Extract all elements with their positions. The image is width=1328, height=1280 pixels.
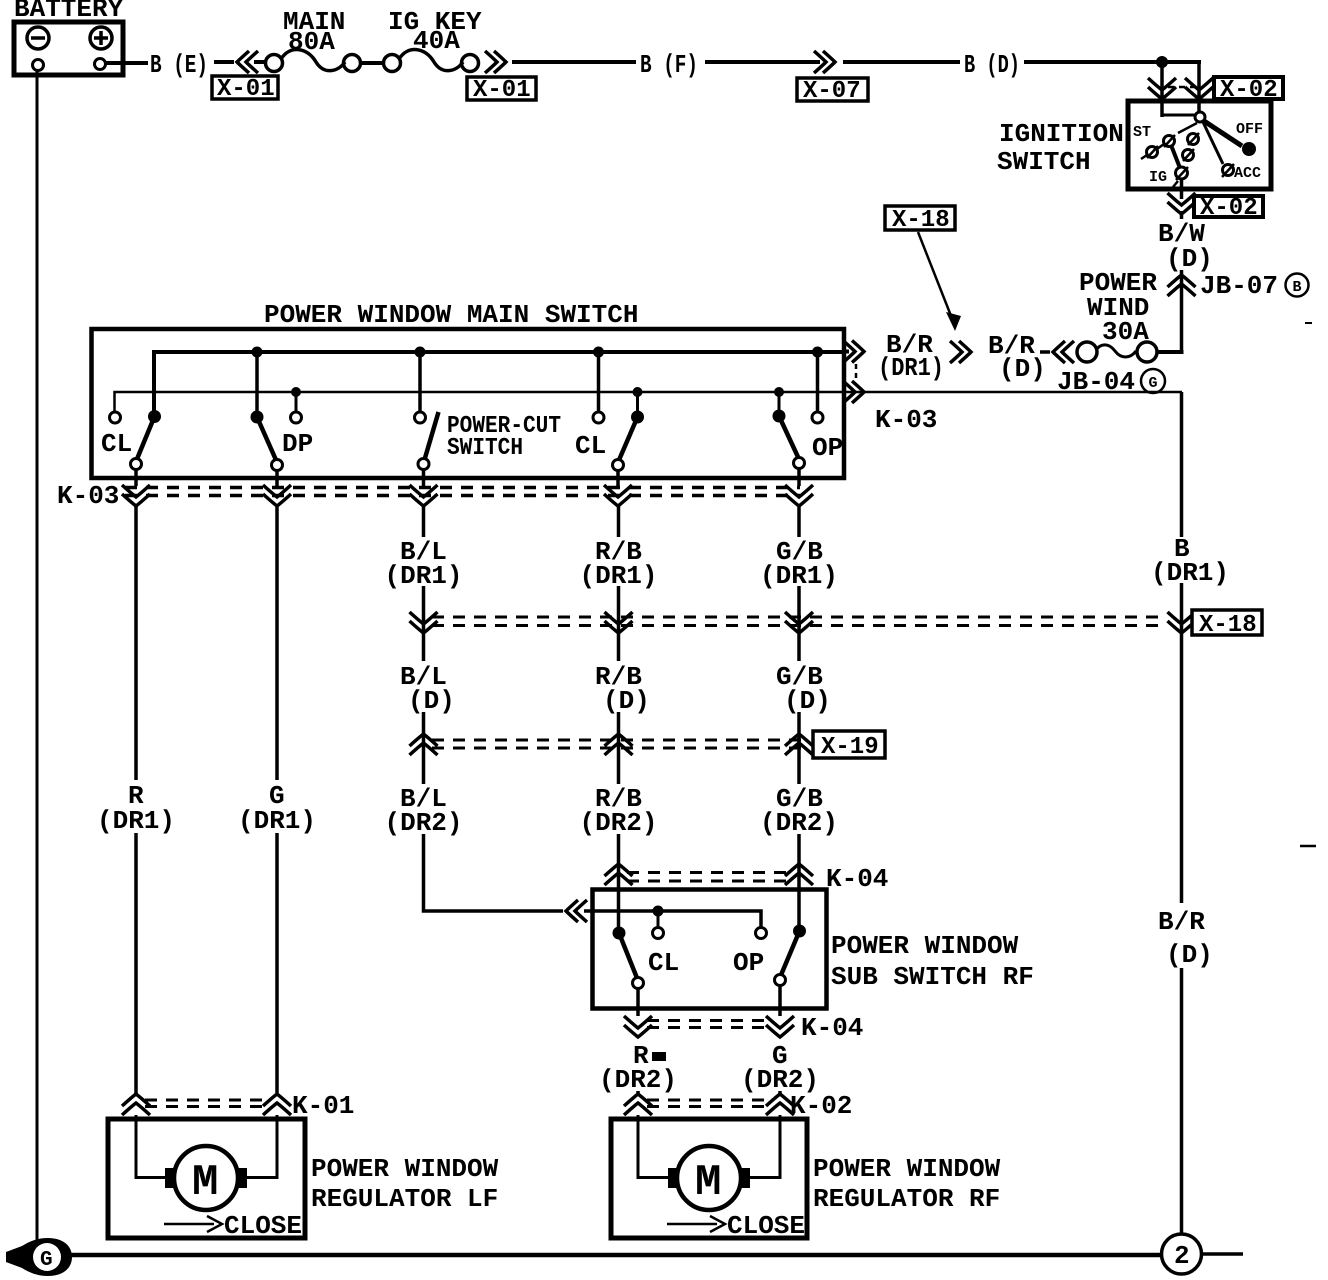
svg-text:OP: OP (812, 433, 843, 463)
wire G (DR1) (275, 505, 279, 780)
label JB-04 G (1057, 367, 1165, 397)
svg-text:CLOSE: CLOSE (727, 1211, 805, 1241)
svg-text:X-19: X-19 (821, 734, 879, 761)
wire B(F) (512, 60, 636, 64)
wire (134, 833, 138, 1096)
wire (778, 1091, 782, 1096)
wire (422, 712, 426, 784)
svg-text:CL: CL (575, 431, 606, 461)
stray mark (1305, 322, 1312, 324)
wire dashed between X-02 (1168, 86, 1194, 89)
label X-18 (1192, 610, 1262, 639)
connector X-07 chevron (814, 51, 835, 73)
close arrow LF (164, 1211, 302, 1241)
wire (422, 586, 426, 661)
wire corner to fuse (1156, 350, 1182, 352)
svg-text:(DR2): (DR2) (599, 1065, 677, 1095)
wire (617, 712, 621, 784)
wire (797, 712, 801, 784)
wire B(D) (843, 60, 960, 64)
wire ground bus (70, 1253, 1162, 1258)
connector X-02 chevrons top (1148, 78, 1176, 99)
wire OP output (778, 986, 782, 1017)
wire battery to B(E) (106, 61, 148, 65)
label X-18 with arrow (885, 206, 961, 331)
motor M regulator LF (165, 1146, 247, 1210)
switch CL left (101, 410, 161, 470)
node circled 2 (1162, 1234, 1202, 1274)
svg-text:SWITCH: SWITCH (447, 435, 523, 462)
label POWER WIND 30A (1079, 268, 1157, 347)
svg-text:DP: DP (282, 429, 313, 459)
wires switch outputs to K-03 (134, 469, 138, 486)
svg-text:(D): (D) (408, 686, 455, 716)
svg-text:(D): (D) (603, 686, 650, 716)
svg-text:2: 2 (1174, 1241, 1190, 1271)
connector JB-04 chevron (1053, 341, 1074, 363)
svg-text:SUB SWITCH RF: SUB SWITCH RF (831, 962, 1034, 992)
svg-text:X-07: X-07 (803, 78, 861, 105)
fuse POWER WIND 30A (1077, 342, 1157, 362)
wire into RF motor left (638, 1115, 669, 1178)
label X-19 (813, 731, 885, 761)
svg-text:REGULATOR RF: REGULATOR RF (813, 1184, 1000, 1214)
svg-text:(D): (D) (999, 354, 1046, 384)
wire bus exit B/R DR1 (844, 350, 849, 354)
wire (617, 834, 621, 930)
wire (797, 586, 801, 661)
connector X-02 chevron bottom (1168, 193, 1196, 214)
wire stub (657, 911, 660, 927)
switch CL right (575, 352, 644, 471)
label X-02 bottom (1194, 195, 1263, 222)
svg-text:CL: CL (648, 948, 679, 978)
svg-text:B (F): B (F) (640, 50, 698, 80)
svg-text:(DR1): (DR1) (97, 806, 175, 836)
connector K-04 top row (627, 864, 888, 894)
switch POWER-CUT (415, 352, 562, 470)
wire R/B (617, 505, 621, 537)
svg-text:CLOSE: CLOSE (224, 1211, 302, 1241)
connector K-03 chevron (843, 381, 864, 403)
svg-text:X-18: X-18 (1199, 612, 1257, 639)
connector K-03 row (57, 481, 800, 511)
svg-text:X-18: X-18 (892, 207, 950, 234)
svg-text:POWER WINDOW MAIN SWITCH: POWER WINDOW MAIN SWITCH (264, 300, 638, 330)
switch DP (251, 352, 314, 471)
connector K-04 bottom row (647, 1013, 863, 1043)
power window regulator RF box (611, 1119, 1001, 1238)
label X-01 right (467, 77, 536, 104)
wire to ignition (1024, 60, 1201, 64)
svg-text:M: M (695, 1158, 721, 1208)
svg-text:(D): (D) (1166, 940, 1213, 970)
svg-text:(DR1): (DR1) (878, 353, 944, 383)
connector chevron (950, 341, 971, 363)
svg-text:B/R: B/R (1158, 907, 1205, 937)
wire B/L (422, 505, 426, 537)
connector chevron at main switch (843, 341, 864, 363)
svg-text:B (D): B (D) (964, 50, 1020, 80)
wire R (DR1) (134, 505, 138, 780)
svg-text:POWER WINDOW: POWER WINDOW (311, 1154, 499, 1184)
battery (14, 0, 124, 75)
ground body symbol G (6, 1238, 72, 1276)
wire (1180, 270, 1184, 352)
connector dashed link (855, 364, 858, 381)
svg-text:(DR1): (DR1) (1151, 558, 1229, 588)
wire into RF motor right (750, 1115, 780, 1178)
svg-text:ST: ST (1133, 124, 1151, 141)
power window sub switch RF box (593, 890, 1034, 1009)
wire (705, 60, 820, 64)
connector K-01 row (145, 1091, 354, 1121)
connector JB-07 chevron (1168, 275, 1196, 296)
connector X-01 chevron right (485, 51, 506, 73)
svg-text:(DR2): (DR2) (760, 808, 838, 838)
switch OP sub (733, 925, 806, 986)
node junction (653, 906, 664, 917)
wire G/B (797, 505, 801, 537)
wire (584, 909, 594, 913)
svg-text:IG: IG (1149, 169, 1167, 186)
svg-text:B: B (1293, 279, 1302, 296)
junction dot (1156, 56, 1168, 68)
connector X-01 chevron (237, 51, 258, 73)
fuse MAIN 80A (266, 7, 361, 72)
svg-text:(DR1): (DR1) (238, 806, 316, 836)
wire (275, 833, 279, 1096)
svg-text:REGULATOR LF: REGULATOR LF (311, 1184, 498, 1214)
svg-text:K-03: K-03 (875, 405, 937, 435)
node second bus junctions (291, 387, 301, 397)
svg-text:(D): (D) (1166, 244, 1213, 274)
label X-01 left (212, 76, 278, 103)
wire B/W (1180, 211, 1184, 219)
power window main switch box (92, 300, 845, 478)
wire top bus (154, 352, 844, 414)
svg-text:K-03: K-03 (57, 481, 119, 511)
svg-text:ACC: ACC (1234, 165, 1261, 182)
svg-text:K-04: K-04 (826, 864, 888, 894)
wire (361, 61, 384, 65)
svg-text:80A: 80A (288, 27, 335, 57)
svg-text:(DR2): (DR2) (580, 808, 658, 838)
wire (617, 586, 621, 661)
switch CL sub (613, 927, 680, 989)
svg-text:(D): (D) (784, 686, 831, 716)
wire sub switch internal bus (594, 911, 761, 927)
svg-text:OP: OP (733, 948, 764, 978)
connector chevron into sub switch (566, 900, 587, 922)
svg-text:M: M (192, 1158, 218, 1208)
svg-text:G: G (1149, 375, 1158, 392)
wire (1202, 1252, 1243, 1256)
svg-text:X-01: X-01 (473, 77, 531, 104)
svg-text:X-01: X-01 (217, 76, 275, 103)
wire CL output (636, 989, 640, 1017)
wire into LF motor right (247, 1115, 277, 1178)
wire B (DR1) right side (1180, 392, 1184, 537)
connector K-02 row (647, 1091, 852, 1121)
svg-text:B (E): B (E) (150, 50, 208, 80)
node top bus junctions (252, 347, 263, 358)
label X-07 (797, 78, 868, 105)
wire IG output (1180, 179, 1184, 199)
label JB-07 B (1200, 271, 1309, 301)
wire (1040, 350, 1050, 354)
svg-text:CL: CL (101, 429, 132, 459)
wire second bus (115, 392, 1183, 414)
switch OP (773, 352, 844, 469)
svg-text:IGNITION: IGNITION (999, 119, 1124, 149)
wire (636, 1091, 640, 1096)
ignition switch U1 (1128, 101, 1271, 189)
motor M regulator RF (668, 1146, 750, 1210)
wire (254, 60, 267, 64)
power window regulator LF box (108, 1119, 499, 1238)
fuse IG KEY 40A (384, 7, 483, 72)
wire (1197, 62, 1201, 114)
wire (1180, 968, 1184, 1236)
wire battery feed into ignition (1160, 62, 1164, 117)
svg-text:JB-07: JB-07 (1200, 271, 1278, 301)
svg-text:POWER WINDOW: POWER WINDOW (813, 1154, 1001, 1184)
label X-02 top (1214, 77, 1283, 104)
wire (214, 60, 234, 64)
wire (1180, 583, 1184, 903)
wire battery negative down (36, 70, 39, 1243)
svg-text:K-04: K-04 (801, 1013, 863, 1043)
close arrow RF (667, 1211, 805, 1241)
svg-text:POWER WINDOW: POWER WINDOW (831, 931, 1019, 961)
svg-text:(DR2): (DR2) (385, 808, 463, 838)
svg-text:X-02: X-02 (1200, 195, 1258, 222)
wire (797, 834, 801, 928)
connector X-19 row dashed (432, 740, 806, 748)
svg-text:SWITCH: SWITCH (997, 147, 1091, 177)
svg-text:G: G (40, 1249, 53, 1272)
wire into LF motor left (136, 1115, 166, 1178)
connector X-18 row dashed (432, 617, 1165, 626)
wire to sub switch (424, 834, 564, 911)
svg-text:OFF: OFF (1236, 121, 1263, 138)
stray mark (1300, 845, 1316, 848)
